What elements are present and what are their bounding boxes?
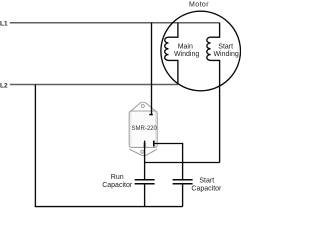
wire horizontal to start winding lead <box>145 162 220 164</box>
wire from L2 down at left <box>34 85 36 207</box>
wire start capacitor to bottom wire <box>182 184 184 206</box>
relay pin right <box>153 141 155 147</box>
wire corner down to start capacitor <box>182 143 184 179</box>
svg-text:Start: Start <box>199 178 214 185</box>
relay pin top <box>149 114 153 116</box>
inductor main winding <box>165 23 178 85</box>
svg-text:L1: L1 <box>0 21 8 28</box>
svg-text:L2: L2 <box>0 82 8 89</box>
relay pin bottom-left <box>144 143 146 147</box>
capacitor run: top plate <box>135 179 155 181</box>
svg-text:Capacitor: Capacitor <box>191 185 222 192</box>
svg-text:Main: Main <box>178 43 193 50</box>
motor circle <box>161 11 241 91</box>
svg-text:Winding: Winding <box>213 51 238 58</box>
capacitor start: bottom plate <box>173 183 193 185</box>
svg-text:Run: Run <box>111 174 124 181</box>
capacitor run: bottom plate <box>135 183 155 185</box>
relay bottom mounting tab <box>129 149 157 156</box>
relay top mounting tab <box>129 102 157 112</box>
relay body inner shading <box>130 112 132 146</box>
relay bottom tab hole <box>141 150 144 153</box>
wire L2 horizontal <box>10 84 178 86</box>
svg-text:SMR-220: SMR-220 <box>132 126 158 132</box>
wire run capacitor to bottom wire <box>144 184 146 206</box>
capacitor start: top plate <box>173 179 193 181</box>
svg-text:Winding: Winding <box>174 51 199 58</box>
svg-text:Capacitor: Capacitor <box>102 182 133 189</box>
relay U1 SMR-220 body <box>129 111 157 147</box>
wire relay right pin to corner <box>154 143 183 145</box>
inductor start winding <box>207 23 220 163</box>
wire L1 down to relay top pin <box>151 23 153 114</box>
wire L1 horizontal <box>10 22 220 24</box>
wire bottom horizontal <box>35 206 183 208</box>
relay top tab hole <box>141 104 144 107</box>
svg-text:Motor: Motor <box>189 2 209 9</box>
wire relay bottom pin down to run capacitor <box>144 141 146 180</box>
svg-text:Start: Start <box>218 43 233 50</box>
